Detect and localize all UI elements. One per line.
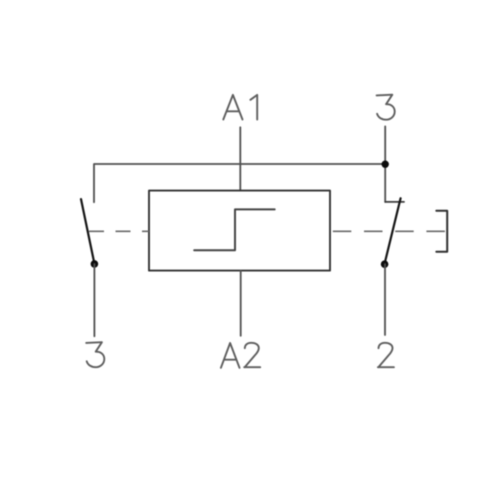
terminal label A1: [223, 95, 257, 120]
wire: right contact down lead to terminal 2: [384, 264, 386, 335]
wire: top rail from left contact to node at terminal 3: [94, 164, 385, 202]
wire: lead from terminal 3 down through node to contact seat: [384, 126, 386, 202]
wire: left contact down lead to terminal 3 (bottom): [93, 264, 95, 336]
actuator bracket (mechanical coupling end): [436, 211, 447, 252]
switch contact right (NC) : fixed seat crossbar: [385, 201, 404, 203]
mechanical linkage (dashed) right: coil box to actuator bracket: [333, 230, 447, 232]
terminal label A2: [221, 343, 260, 368]
terminal label 3 (top right): [377, 95, 395, 120]
wire: coil lead from terminal A1 down to coil box: [239, 127, 241, 190]
switch contact left (NO) : movable blade: [81, 199, 94, 264]
terminal label 2 (bottom right): [378, 343, 394, 367]
terminal label 3 (bottom left): [86, 342, 104, 367]
switch contact right (NC) : movable blade: [385, 198, 401, 263]
relay coil box (step-function device): [149, 191, 330, 271]
contact terminal dot (left): [91, 260, 99, 268]
junction node (dot) at top rail / terminal 3: [382, 161, 389, 168]
mechanical linkage (dashed) left: contact to coil box: [89, 230, 149, 232]
contact terminal dot (right): [381, 260, 389, 268]
wire: coil lead from coil box down to terminal A2: [240, 271, 242, 336]
step / hysteresis symbol inside coil box: [194, 209, 275, 250]
